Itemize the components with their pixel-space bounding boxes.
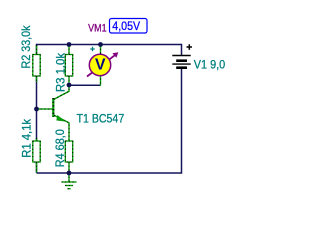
svg-text:R1 4,1k: R1 4,1k — [19, 118, 33, 158]
value label T1 BC547 — [77, 111, 125, 125]
wire left column (R2-base-R1) — [36, 44, 38, 173]
resistor R1 — [33, 138, 40, 173]
node ground junction — [67, 171, 72, 176]
voltmeter VM1 — [87, 45, 118, 86]
transistor T1 — [37, 85, 69, 141]
wire bottom rail — [37, 172, 182, 174]
svg-text:VM1: VM1 — [88, 23, 107, 35]
svg-text:R4 68,0: R4 68,0 — [53, 129, 67, 167]
designator label VM1 — [88, 23, 107, 35]
wire battery column bottom — [181, 68, 183, 174]
resistor R2 — [33, 45, 40, 82]
node base — [34, 107, 39, 112]
wire collector node to voltmeter — [69, 84, 101, 86]
value label R3 1,0k — [53, 52, 67, 92]
svg-text:V1 9,0: V1 9,0 — [194, 58, 226, 72]
svg-text:R2 33,0k: R2 33,0k — [19, 25, 33, 69]
node voltmeter top — [98, 42, 103, 47]
wire top rail — [37, 44, 182, 46]
svg-text:T1 BC547: T1 BC547 — [77, 111, 125, 125]
battery V1 — [172, 44, 192, 67]
value label R4 68,0 — [53, 129, 67, 167]
svg-text:R3 1,0k: R3 1,0k — [53, 52, 67, 92]
svg-text:V: V — [95, 56, 106, 73]
node collector — [67, 83, 72, 88]
resistor R4 — [65, 141, 72, 173]
value label R2 33,0k — [19, 25, 33, 69]
svg-text:4,05V: 4,05V — [112, 19, 140, 33]
voltmeter readout value label 4,05V — [110, 19, 148, 34]
wire battery column top — [181, 44, 183, 56]
resistor R3 — [65, 45, 72, 85]
ground — [62, 173, 77, 189]
value label R1 4,1k — [19, 118, 33, 158]
value label V1 9,0 — [194, 58, 226, 72]
node R3 top — [67, 42, 72, 47]
